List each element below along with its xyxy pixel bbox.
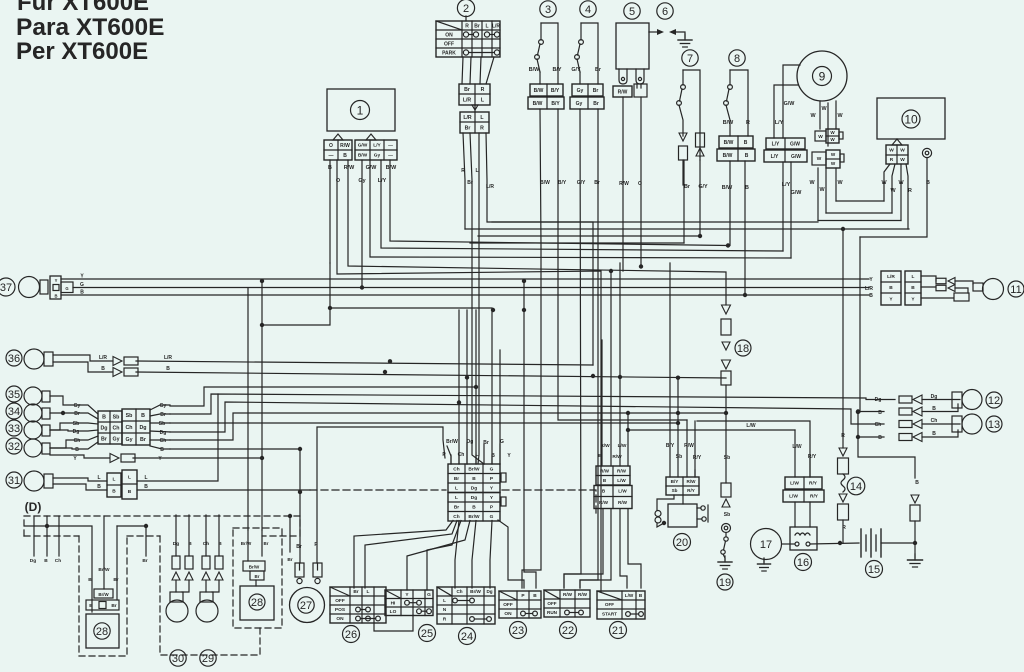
- svg-text:Dg: Dg: [471, 495, 477, 501]
- svg-text:POS: POS: [335, 607, 346, 613]
- wire R down from bus to 14: [842, 229, 844, 448]
- switch 8 contact: [728, 85, 733, 90]
- svg-text:L: L: [144, 475, 147, 481]
- svg-text:W: W: [818, 134, 823, 140]
- svg-text:B: B: [472, 476, 476, 482]
- svg-text:R/Y: R/Y: [693, 455, 702, 461]
- circle label 23: [510, 622, 527, 639]
- switch 7 top wires: [683, 70, 700, 157]
- bulb 30: [166, 600, 188, 622]
- svg-text:Ch: Ch: [453, 514, 459, 520]
- svg-text:R: R: [746, 120, 750, 126]
- switch 7 contact: [681, 85, 686, 90]
- table 23 contacts ON: [521, 611, 526, 616]
- svg-text:33: 33: [8, 423, 20, 435]
- svg-text:(D): (D): [25, 500, 42, 514]
- svg-text:B: B: [89, 603, 93, 609]
- bulb 34: [24, 404, 42, 422]
- svg-text:Gy: Gy: [576, 101, 583, 107]
- svg-text:OFF: OFF: [605, 602, 614, 607]
- svg-text:L: L: [367, 589, 370, 595]
- switch table 26: [330, 587, 386, 623]
- svg-text:R/W: R/W: [600, 443, 610, 449]
- svg-text:9: 9: [819, 69, 826, 83]
- svg-text:L/W: L/W: [617, 478, 626, 483]
- svg-text:Sb: Sb: [724, 455, 730, 461]
- svg-text:Br: Br: [474, 23, 480, 29]
- bus wire L/R upper: [492, 221, 818, 223]
- fuse chain right: [911, 495, 919, 503]
- svg-text:G: G: [490, 466, 494, 472]
- svg-text:B: B: [112, 489, 116, 495]
- svg-text:B/Y: B/Y: [551, 101, 560, 107]
- wires into relay block: [601, 340, 603, 466]
- svg-text:R/W: R/W: [599, 500, 609, 505]
- circle label 27: [298, 597, 314, 613]
- small connector under box 5 right: [634, 84, 647, 97]
- svg-text:Br/W: Br/W: [468, 514, 480, 520]
- svg-text:Br/W: Br/W: [446, 439, 458, 445]
- wires under 9 connector: [782, 162, 784, 251]
- svg-text:Ch: Ch: [453, 466, 459, 472]
- box 16: [790, 527, 817, 550]
- svg-text:14: 14: [850, 481, 862, 493]
- svg-text:R/W: R/W: [684, 443, 694, 449]
- wire W segment b: [826, 212, 892, 214]
- box 28b: [86, 614, 119, 648]
- box 5: [616, 23, 649, 69]
- svg-text:Dg: Dg: [73, 429, 80, 435]
- switch 4 contact: [579, 40, 584, 45]
- wires down to bulb 30: [175, 515, 177, 556]
- bus wire to component 7 G/Y junction: [478, 235, 700, 237]
- bullet connectors 11 a: [936, 278, 946, 284]
- P loop wire to horn: [317, 427, 445, 563]
- svg-text:36: 36: [8, 353, 20, 365]
- ground 19: [724, 556, 726, 562]
- svg-text:B: B: [166, 366, 170, 372]
- headlight bulb 37: [19, 277, 40, 298]
- svg-text:Gy: Gy: [160, 403, 167, 409]
- svg-text:L/R: L/R: [492, 23, 500, 29]
- svg-text:B: B: [744, 140, 748, 146]
- box 28a: [240, 586, 274, 620]
- ring terminal B of 10: [922, 148, 931, 157]
- svg-text:O: O: [638, 181, 642, 187]
- svg-text:Br: Br: [160, 412, 166, 418]
- wires 11 connectors to bulb: [921, 276, 936, 281]
- svg-text:B: B: [144, 484, 148, 490]
- box U1 main switch: [327, 89, 395, 131]
- svg-text:R: R: [908, 188, 912, 194]
- bulb 31: [24, 471, 44, 491]
- svg-text:R/W: R/W: [344, 165, 355, 171]
- switch table 23: [499, 591, 541, 618]
- svg-text:B/W: B/W: [723, 120, 734, 126]
- svg-text:Br: Br: [467, 180, 473, 186]
- wire from box 5 to arrow 6: [648, 31, 650, 33]
- svg-text:R/Y: R/Y: [810, 494, 819, 500]
- relay 20 wires: [657, 495, 674, 510]
- comp1 wire L/Y to magneto L/Y: [381, 160, 783, 251]
- svg-text:B: B: [932, 431, 936, 437]
- wires into 28b: [103, 516, 105, 589]
- svg-text:B: B: [869, 293, 873, 299]
- svg-text:21: 21: [612, 625, 624, 637]
- svg-text:1: 1: [357, 103, 364, 117]
- circle label 21: [610, 622, 627, 639]
- svg-text:Br: Br: [74, 411, 80, 417]
- feeder connector to table 25 G: [427, 521, 461, 591]
- svg-text:B: B: [75, 447, 79, 453]
- svg-text:Br: Br: [595, 67, 602, 73]
- svg-text:L/W: L/W: [792, 444, 801, 450]
- arrow notch above 10 connector: [892, 139, 902, 145]
- svg-text:Sb: Sb: [676, 454, 682, 460]
- svg-text:Gy: Gy: [125, 437, 132, 443]
- svg-text:Dg: Dg: [173, 541, 179, 547]
- wire W segment c: [818, 220, 901, 222]
- circle label 26: [343, 626, 360, 643]
- svg-text:30: 30: [172, 653, 184, 665]
- svg-text:B: B: [472, 504, 476, 510]
- circle label 33: [6, 420, 22, 436]
- svg-text:—: —: [388, 154, 393, 159]
- wire Sb from junction down to 19: [725, 413, 727, 483]
- vertical to dashed box 28: [261, 281, 263, 530]
- svg-text:Br/W: Br/W: [241, 541, 252, 546]
- fuse arrow chain 29 b: [215, 556, 223, 569]
- connector 11 left: [881, 271, 901, 305]
- wire 14 to battery junction: [842, 520, 844, 543]
- wire Y from headlight 37 to right: [61, 278, 869, 280]
- svg-text:Br: Br: [593, 88, 599, 94]
- cluster connector block right half: [122, 409, 150, 445]
- svg-text:R: R: [890, 157, 894, 163]
- svg-text:Br/W: Br/W: [249, 565, 260, 570]
- svg-text:B: B: [745, 185, 749, 191]
- svg-text:Sb: Sb: [724, 512, 730, 518]
- table 24 contacts L: [453, 598, 458, 603]
- fuse 19: [721, 483, 731, 497]
- svg-text:Br: Br: [140, 437, 146, 443]
- switch 2 PARK contacts: [463, 50, 468, 55]
- svg-text:B/Y: B/Y: [666, 443, 675, 449]
- svg-text:B: B: [878, 410, 882, 416]
- horn 27 circle: [290, 588, 325, 623]
- box 10: [877, 98, 945, 139]
- arrow notch on connector 1 right: [366, 134, 376, 140]
- svg-text:W: W: [889, 148, 894, 154]
- svg-text:23: 23: [512, 625, 524, 637]
- bullet connectors 11 b: [936, 285, 946, 291]
- svg-text:L/R: L/R: [164, 355, 172, 361]
- middle connector side tab: [501, 473, 506, 482]
- svg-text:Ch: Ch: [160, 438, 167, 444]
- cluster wires right side short stubs: [150, 405, 170, 410]
- horn connector right: [313, 563, 322, 577]
- wires left of 9: [783, 65, 800, 138]
- dashed box around 28a: [233, 528, 282, 628]
- svg-text:B: B: [160, 447, 164, 453]
- svg-text:26: 26: [345, 629, 357, 641]
- svg-text:L/Y: L/Y: [378, 178, 387, 184]
- svg-text:B: B: [878, 435, 882, 441]
- comp1 wire Gy to G-37 line: [361, 160, 363, 288]
- connector 37: [50, 276, 61, 299]
- circle label 19: [717, 574, 733, 590]
- svg-text:ON: ON: [336, 616, 344, 622]
- svg-text:START: START: [602, 612, 617, 617]
- svg-text:R/W: R/W: [619, 181, 629, 187]
- connector block below switch 2 upper: [459, 84, 490, 105]
- wire B cluster to horn wire: [170, 448, 300, 450]
- svg-text:B/W: B/W: [358, 153, 368, 159]
- svg-text:B/Y: B/Y: [671, 479, 679, 484]
- svg-text:Ch: Ch: [112, 425, 119, 431]
- arrow notch on connector 1 left: [333, 134, 343, 140]
- svg-text:B: B: [188, 541, 192, 547]
- ground 17: [763, 559, 765, 562]
- circle label 20: [674, 534, 691, 551]
- circle label 32: [6, 438, 22, 454]
- svg-text:Br: Br: [684, 184, 691, 190]
- svg-text:B: B: [102, 414, 106, 420]
- feeder connector to table 26 Br: [354, 521, 453, 589]
- circle label 13: [986, 416, 1002, 432]
- bulb 13: [952, 416, 962, 432]
- svg-text:12: 12: [988, 395, 1000, 407]
- svg-text:B/Y: B/Y: [553, 67, 562, 73]
- circle label 7: [682, 50, 698, 66]
- connector block below switch 2 lower: [460, 112, 489, 133]
- svg-text:G: G: [80, 282, 84, 288]
- svg-text:Br: Br: [594, 180, 600, 186]
- svg-text:Ch: Ch: [125, 425, 132, 431]
- svg-text:L: L: [912, 274, 915, 280]
- svg-text:L/Y: L/Y: [775, 120, 784, 126]
- svg-text:G/W: G/W: [791, 154, 801, 160]
- svg-text:B: B: [745, 153, 749, 159]
- svg-text:L/Y: L/Y: [782, 182, 791, 188]
- connector 3 upper: [530, 84, 563, 96]
- svg-text:Br: Br: [111, 603, 116, 609]
- svg-text:Para XT600E: Para XT600E: [16, 14, 164, 41]
- bulb 29 base: [200, 592, 213, 602]
- svg-text:28: 28: [96, 626, 108, 638]
- wires below relay block: [564, 509, 603, 588]
- switch table 21: [597, 591, 645, 619]
- svg-text:B: B: [80, 290, 84, 296]
- svg-text:R/W: R/W: [563, 592, 573, 597]
- svg-text:W: W: [900, 157, 905, 163]
- svg-text:13: 13: [988, 419, 1000, 431]
- wire Gy cluster to connector vertical: [170, 387, 476, 406]
- wires into Sb block: [669, 263, 671, 477]
- circle label 1: [351, 101, 370, 120]
- svg-text:Ch: Ch: [203, 541, 209, 547]
- switch table U2 lighting switch: [436, 21, 500, 57]
- table 24 contacts R: [470, 617, 475, 622]
- table 22 contacts RUN: [565, 610, 570, 615]
- svg-text:W: W: [900, 148, 905, 154]
- svg-text:O: O: [329, 143, 333, 149]
- circle label 6: [657, 3, 673, 19]
- points switch 19: [725, 533, 727, 537]
- circle label 24: [459, 628, 476, 645]
- svg-text:B/W: B/W: [722, 185, 733, 191]
- table 26 contacts ON: [356, 616, 361, 621]
- svg-text:B/W: B/W: [723, 153, 733, 159]
- svg-text:LO: LO: [390, 609, 397, 615]
- svg-text:L: L: [113, 477, 116, 483]
- fuse arrow chain 29 a: [202, 556, 210, 569]
- mating arrow between connector halves: [472, 105, 478, 110]
- wires 31: [53, 478, 107, 481]
- svg-text:W: W: [817, 156, 822, 162]
- bulb 11: [983, 279, 1004, 300]
- circle label 18: [735, 340, 751, 356]
- svg-text:6: 6: [662, 6, 668, 18]
- vertical comp8 B to B bus: [744, 161, 746, 295]
- svg-text:B/W: B/W: [540, 180, 550, 186]
- relay 20 coil: [655, 511, 661, 517]
- W connector block 9 upper: [826, 129, 839, 143]
- circle label 10: [902, 110, 920, 128]
- svg-text:Br: Br: [593, 101, 599, 107]
- svg-text:Br: Br: [464, 87, 470, 93]
- circle 17: [751, 529, 782, 560]
- svg-text:35: 35: [8, 389, 20, 401]
- svg-text:L/R: L/R: [486, 184, 494, 190]
- svg-text:B: B: [533, 593, 537, 599]
- circle label 34: [6, 403, 22, 419]
- circle label 29: [200, 650, 216, 666]
- svg-text:B: B: [128, 489, 132, 495]
- verticals comp3 down to table 23: [522, 109, 541, 588]
- svg-text:Gy: Gy: [74, 403, 81, 409]
- svg-text:R: R: [841, 433, 845, 439]
- dashed box around 28b: [79, 536, 127, 656]
- cluster connector block left half: [98, 411, 122, 444]
- svg-text:Br: Br: [101, 436, 107, 442]
- svg-text:R/Y: R/Y: [808, 454, 817, 460]
- fuse and arrow on 7 left wire: [679, 133, 687, 141]
- svg-text:Dg: Dg: [875, 397, 882, 403]
- svg-text:Ch: Ch: [875, 422, 882, 428]
- table 25 contacts LO: [417, 609, 422, 614]
- svg-text:Y: Y: [55, 278, 58, 283]
- vertical comp8 BW: [729, 161, 731, 246]
- bulb 33: [24, 421, 42, 439]
- wire 17 to 16: [782, 543, 795, 545]
- wire G from headlight 37 to right: [73, 287, 869, 289]
- svg-text:Sb: Sb: [672, 488, 678, 493]
- connector 31 right half: [122, 470, 137, 499]
- bulb 32: [24, 439, 42, 457]
- comp1 wire G/W to magneto G/W: [370, 160, 791, 258]
- svg-text:37: 37: [0, 282, 12, 294]
- connector 28a: [243, 561, 265, 571]
- svg-text:Br: Br: [254, 574, 259, 579]
- svg-text:OFF: OFF: [335, 598, 345, 604]
- bulb 30 base: [170, 592, 183, 602]
- table 26 contacts POS: [356, 607, 361, 612]
- svg-text:Br/W: Br/W: [98, 592, 109, 597]
- svg-text:16: 16: [797, 557, 809, 569]
- bus wire B/W comp1 to B/W-8: [390, 160, 728, 246]
- relay connector lower: [594, 486, 632, 509]
- svg-text:W: W: [830, 130, 835, 135]
- wire Br/W stub into connector: [447, 446, 451, 464]
- bus wire from comp1 O to table 21: [337, 160, 601, 592]
- stub wire Br right of D: [289, 516, 291, 552]
- svg-text:34: 34: [8, 406, 20, 418]
- svg-text:R/W: R/W: [687, 479, 697, 484]
- svg-text:W: W: [831, 152, 836, 157]
- svg-text:Dg: Dg: [160, 430, 167, 436]
- connector 31 left half: [107, 473, 121, 497]
- wires into middle connector top: [450, 455, 452, 464]
- coil symbol 16: [795, 533, 810, 535]
- connector 8 upper: [719, 136, 753, 148]
- svg-text:25: 25: [421, 628, 433, 640]
- switch table 24: [437, 587, 495, 624]
- svg-text:B/W: B/W: [724, 140, 734, 146]
- svg-text:18: 18: [737, 343, 749, 355]
- svg-text:RUN: RUN: [547, 610, 558, 615]
- wire Y 32 with bullet connector: [50, 455, 109, 458]
- dashed option box D outer band: [24, 516, 300, 536]
- wire W segment a: [836, 200, 884, 202]
- svg-text:G/Y: G/Y: [571, 67, 581, 73]
- svg-text:L/W: L/W: [618, 489, 627, 494]
- svg-text:R/W: R/W: [612, 454, 622, 460]
- wire 16 to battery: [810, 543, 859, 544]
- svg-text:B: B: [889, 285, 893, 291]
- wire from 6 to ground: [676, 32, 685, 38]
- svg-text:L: L: [455, 495, 458, 501]
- svg-text:2: 2: [463, 3, 469, 15]
- table 26 to 25 link wire: [374, 615, 413, 631]
- wires from switch 2 to connector: [462, 57, 463, 84]
- svg-text:G: G: [490, 514, 494, 520]
- svg-text:Br: Br: [454, 504, 459, 510]
- svg-text:Br: Br: [142, 558, 147, 564]
- svg-text:B: B: [101, 366, 105, 372]
- svg-text:B: B: [218, 541, 222, 547]
- svg-text:R/Y: R/Y: [687, 488, 695, 493]
- svg-text:Dg: Dg: [471, 485, 477, 491]
- wire Sb cluster to Sb junction: [170, 422, 678, 424]
- bulb 11 base: [955, 281, 973, 284]
- svg-text:24: 24: [461, 631, 473, 643]
- svg-text:B: B: [44, 558, 48, 564]
- wires under 10 connector: [884, 164, 890, 201]
- connector 2x2 under 10: [886, 145, 908, 164]
- switch 2 ON contacts: [463, 32, 468, 37]
- wire B 36 to right: [136, 372, 726, 378]
- circle 9 alternator: [797, 51, 847, 101]
- svg-text:B: B: [932, 406, 936, 412]
- svg-text:11: 11: [1010, 284, 1021, 296]
- wires into L/W R/Y connector: [329, 262, 331, 264]
- arrow pair 6: [649, 31, 657, 33]
- wire B from ring terminal: [860, 158, 927, 237]
- wire B from headlight 37 to right: [61, 294, 869, 296]
- bus wire from comp1 R/W to fuse 18 chain: [348, 160, 726, 305]
- circle label 30: [170, 650, 186, 666]
